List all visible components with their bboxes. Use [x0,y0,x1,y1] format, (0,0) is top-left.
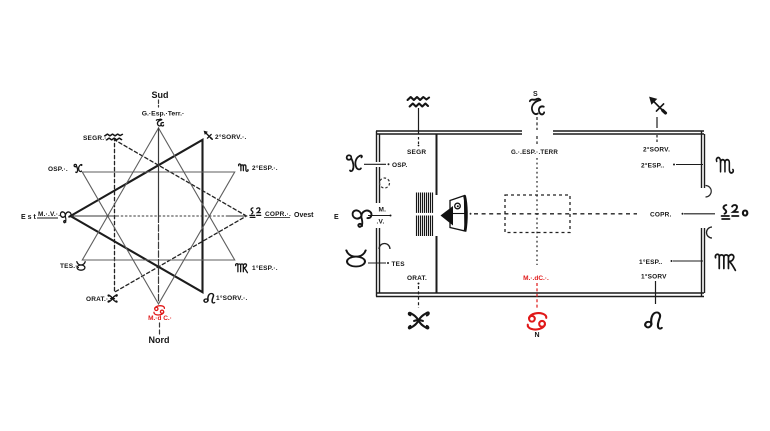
left diagram labels [21,90,314,345]
svg-text:TES: TES [392,261,406,268]
svg-text:OSP.·.: OSP.·. [48,166,68,173]
svg-text:2°ESP..: 2°ESP.. [641,162,664,170]
svg-text:E: E [334,214,339,221]
svg-text:M.·.dC.·.: M.·.dC.·. [523,275,549,282]
svg-text:2°SORV.: 2°SORV. [643,146,670,154]
svg-text:1°ESP..: 1°ESP.. [639,258,662,266]
right scorpio glyph [716,158,733,173]
svg-text:G.·Esp.·Terr.·: G.·Esp.·Terr.· [142,111,185,118]
vertical axis Sud-Nord [159,100,160,334]
left sagittarius arrow [204,131,213,140]
right wall [702,131,705,297]
right cancer glyph red [528,313,547,329]
svg-text:Sud: Sud [152,90,169,100]
right gemini glyph [409,312,429,328]
left gemini glyph [108,295,117,302]
water triangle Cancer-Pisces-Scorpio [82,172,234,304]
right aquarius glyph [408,97,430,107]
label OSP + line to Pisces [388,163,390,165]
svg-text:.V.: .V. [377,219,385,226]
left virgo glyph [236,264,248,273]
central dashed rectangle (tracing board) [505,195,570,233]
svg-text:Ovest: Ovest [294,212,314,219]
right virgo glyph [715,254,735,270]
vertical dotted axis [536,117,538,265]
svg-text:2°ESP.·.: 2°ESP.·. [252,164,278,172]
svg-text:TES.·.: TES.·. [60,263,80,270]
right libra glyph [722,205,739,219]
left libra glyph [250,208,261,218]
svg-text:M.: M. [379,207,387,214]
left aries glyph [60,212,71,223]
altar horn icon [441,196,467,232]
svg-text:COPR.·.: COPR.·. [265,211,291,218]
left wall [377,131,380,297]
right leo glyph [645,312,662,328]
svg-text:COPR.: COPR. [650,212,672,219]
svg-text:ORAT.: ORAT. [407,275,427,282]
door arc left upper [380,178,390,188]
door arc right lower [707,227,713,238]
label TES + line to Taurus [387,262,389,264]
left pisces glyph [74,164,82,172]
right aries glyph [353,210,372,226]
inner partition wall [436,134,438,293]
left taurus glyph [77,262,85,271]
earth triangle Capricorn-Taurus-Virgo [82,128,234,260]
right capricorn glyph [530,99,544,115]
label 2 SORV + line to arrow [656,117,658,128]
plan labels and connector lines [334,91,715,339]
fire triangle Aries-Sagittarius-Leo [71,140,203,292]
door arc right upper [706,186,712,198]
svg-text:OSP.: OSP. [392,162,408,169]
svg-text:SEGR: SEGR [407,149,426,156]
top wall [376,131,704,134]
door arc left lower [379,244,390,250]
svg-text:2°SORV.·.: 2°SORV.·. [215,133,247,141]
bottom wall [376,293,704,297]
left scorpio glyph [239,164,249,171]
svg-text:S: S [533,91,538,98]
svg-text:1°SORV: 1°SORV [641,273,667,281]
left aquarius glyph [105,134,122,140]
horizontal dashed axis [470,213,638,215]
svg-text:G.·.ESP.·.TERR: G.·.ESP.·.TERR [511,149,558,156]
label SEGR + line to Aquarius [418,108,420,134]
right taurus glyph [346,250,365,266]
svg-text:N: N [534,332,539,339]
horizontal axis Est-Ovest [71,215,247,217]
left leo glyph [204,293,215,303]
left cancer glyph red [154,306,164,315]
svg-text:O: O [742,209,748,218]
hatch curtain block [416,193,434,237]
svg-text:M.·d C.·: M.·d C.· [148,315,172,322]
svg-text:ORAT.·.: ORAT.·. [86,296,110,303]
svg-text:E s t: E s t [21,214,36,221]
svg-text:M.·.V.·.: M.·.V.·. [38,211,60,218]
svg-text:1°SORV.·.: 1°SORV.·. [216,294,248,302]
air triangle Libra-Aquarius-Gemini (dashed) [115,140,247,292]
left capricorn glyph [156,119,163,126]
svg-text:1°ESP.·.: 1°ESP.·. [252,264,278,272]
svg-text:Nord: Nord [149,335,170,345]
right sagittarius arrow [649,97,665,113]
right pisces glyph [347,155,362,171]
